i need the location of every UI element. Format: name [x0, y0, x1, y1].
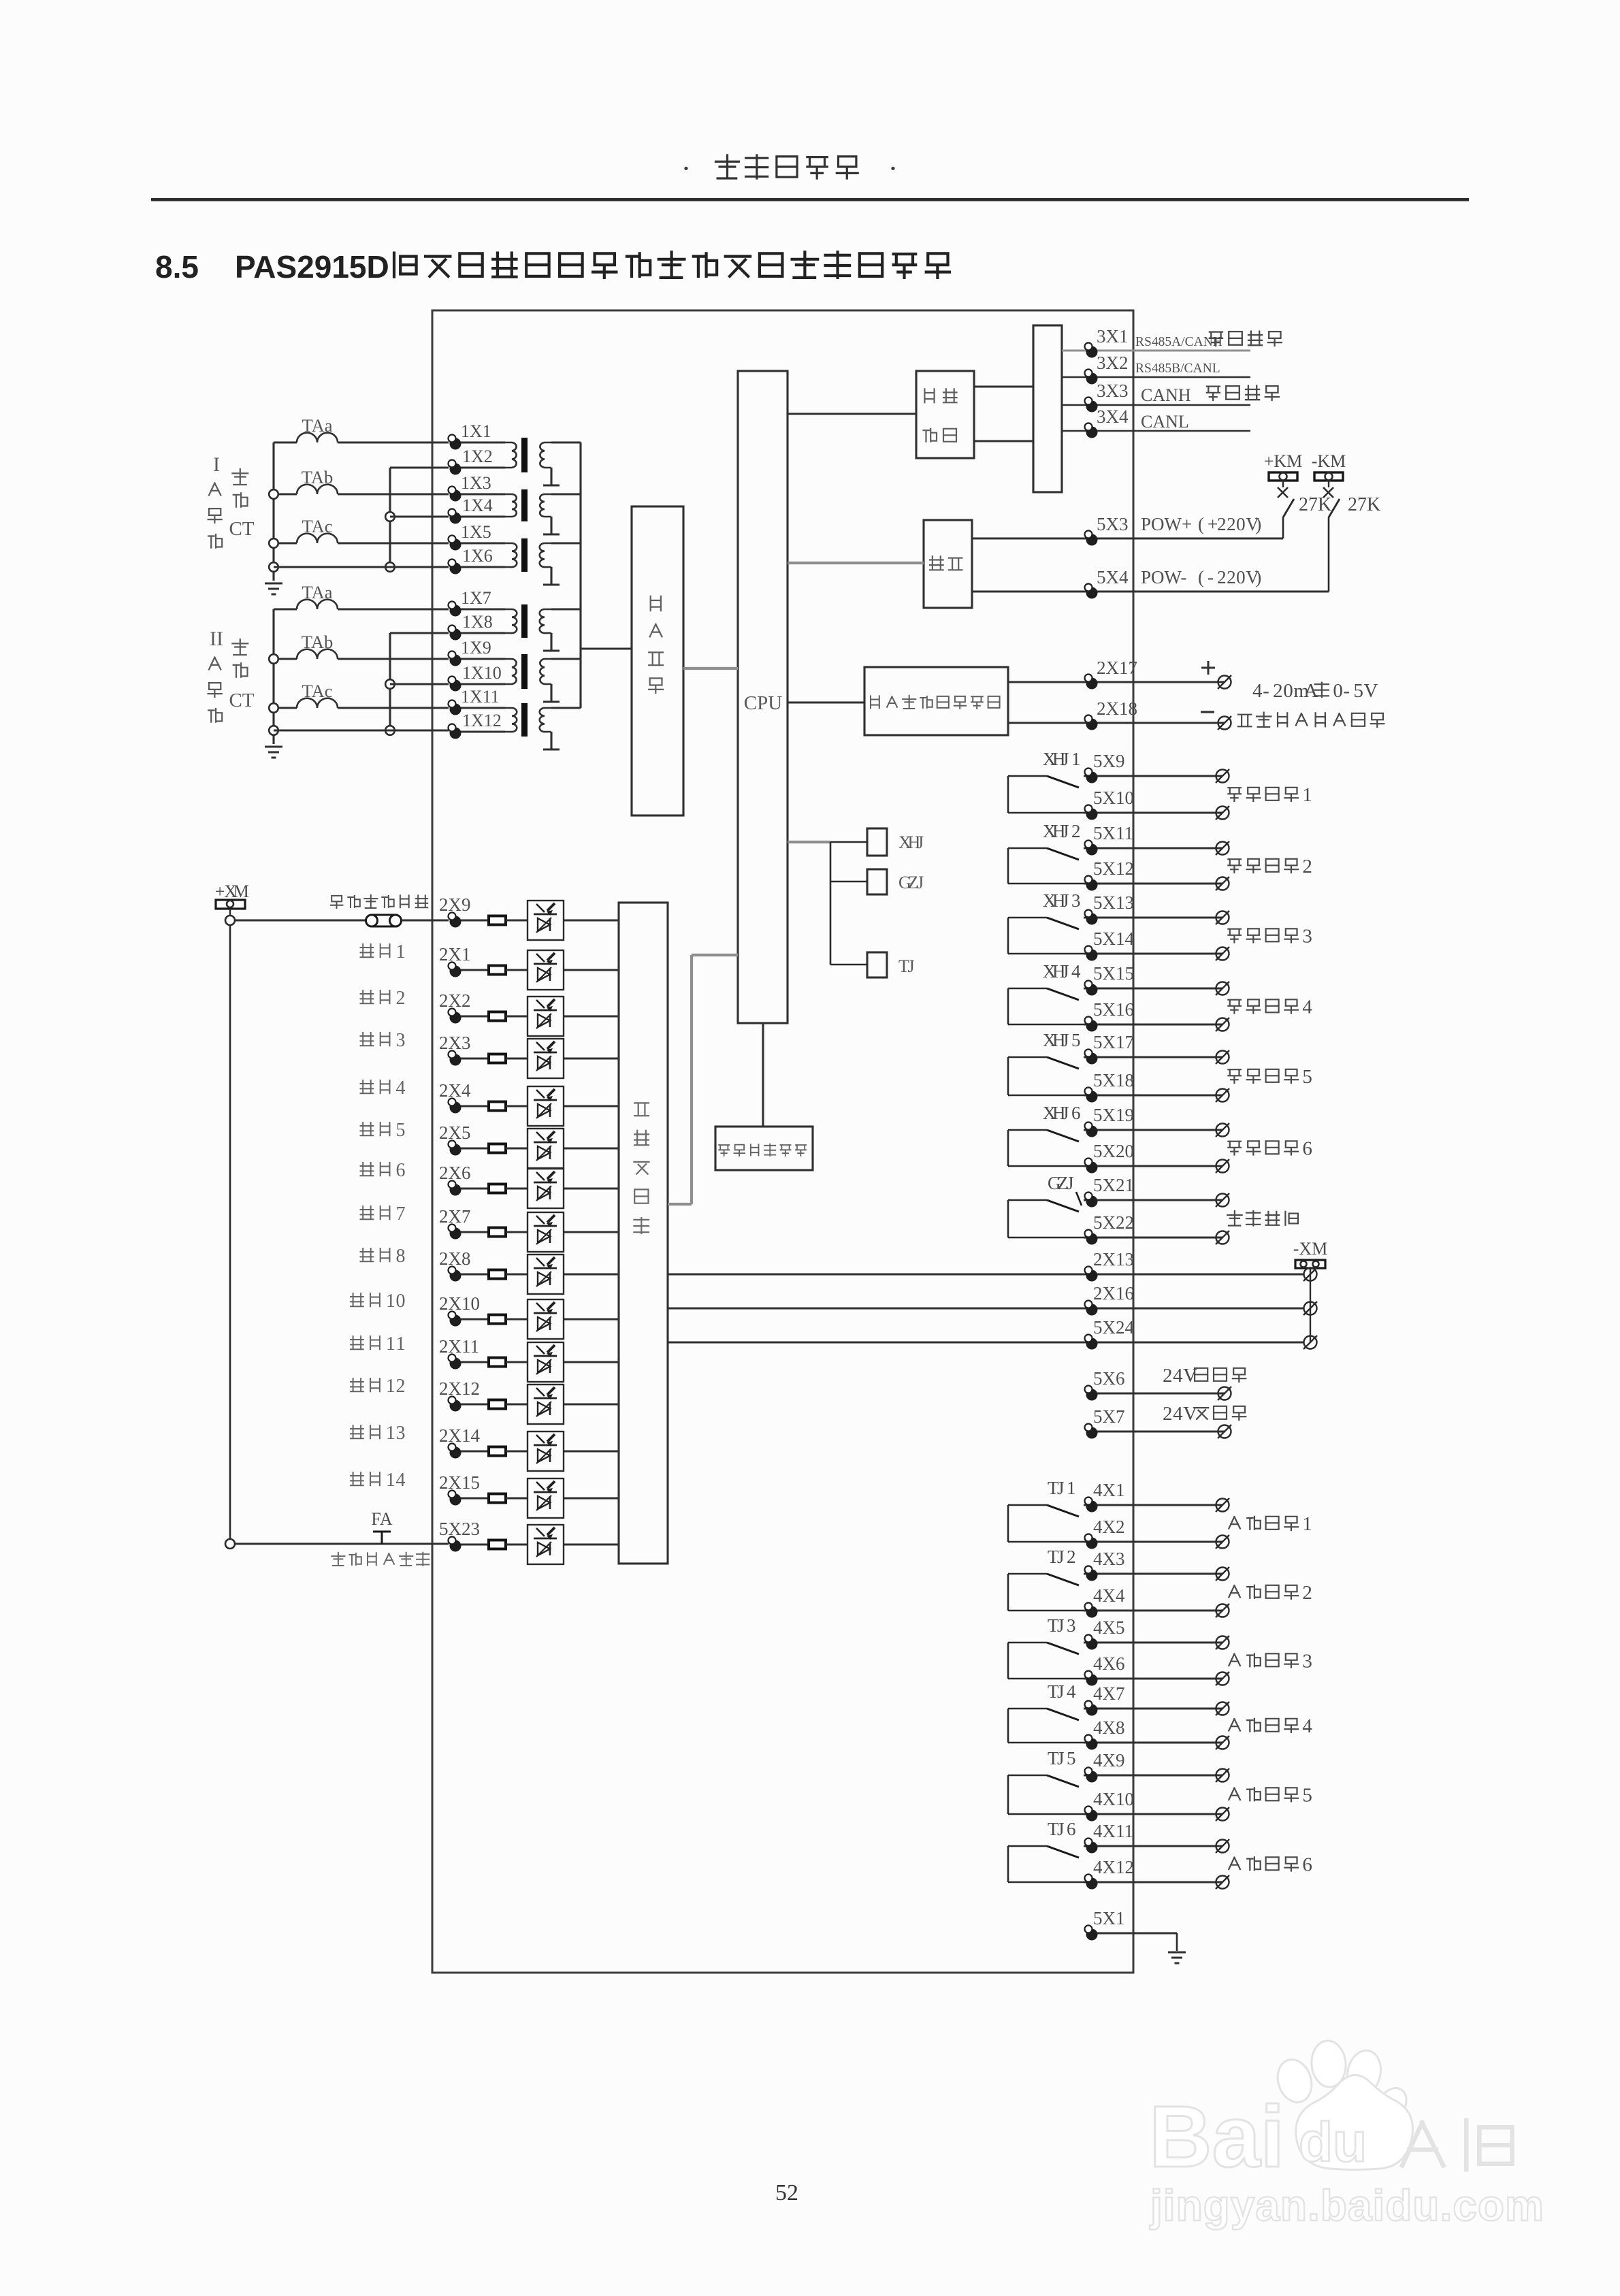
svg-text:2X3: 2X3	[439, 1033, 471, 1053]
svg-text:5X20: 5X20	[1093, 1141, 1134, 1161]
svg-text:1: 1	[1302, 1513, 1312, 1535]
svg-text:2X13: 2X13	[1093, 1249, 1134, 1270]
svg-text:TAc: TAc	[302, 681, 333, 701]
svg-text:J: J	[1067, 1173, 1074, 1193]
svg-text:·: ·	[888, 152, 898, 185]
svg-text:1X12: 1X12	[462, 711, 502, 730]
svg-text:TAa: TAa	[302, 582, 333, 602]
svg-text:1X7: 1X7	[461, 588, 491, 608]
svg-text:J: J	[1062, 1030, 1069, 1050]
svg-text:0: 0	[1333, 680, 1343, 702]
svg-text:1: 1	[1067, 1478, 1076, 1498]
svg-text:2: 2	[395, 1376, 405, 1397]
svg-text:1: 1	[386, 1333, 395, 1355]
svg-text:4: 4	[1067, 1681, 1076, 1702]
svg-text:5: 5	[1071, 1030, 1081, 1050]
svg-text:2: 2	[1302, 1582, 1312, 1604]
svg-text:2X18: 2X18	[1097, 698, 1137, 719]
svg-text:J: J	[1062, 890, 1069, 911]
svg-text:2X2: 2X2	[439, 990, 471, 1011]
svg-text:·: ·	[681, 152, 692, 185]
svg-text:4: 4	[1302, 997, 1312, 1018]
svg-text:2X12: 2X12	[439, 1378, 480, 1399]
svg-text:1X9: 1X9	[461, 638, 491, 658]
svg-text:TAc: TAc	[302, 516, 333, 536]
svg-text:CT: CT	[229, 690, 254, 711]
svg-text:1: 1	[386, 1291, 395, 1312]
svg-text:CANH: CANH	[1141, 385, 1191, 405]
svg-text:1X10: 1X10	[462, 663, 502, 683]
svg-text:RS485B/CANL: RS485B/CANL	[1135, 361, 1220, 376]
svg-text:8.5: 8.5	[155, 249, 199, 285]
svg-text:4: 4	[1252, 680, 1263, 702]
svg-text:5X9: 5X9	[1093, 751, 1125, 771]
svg-text:1: 1	[395, 941, 405, 963]
svg-text:5X21: 5X21	[1093, 1175, 1134, 1195]
svg-text:2: 2	[1071, 821, 1081, 841]
svg-text:0: 0	[395, 1291, 405, 1312]
svg-text:jingyan.baidu.com: jingyan.baidu.com	[1150, 2181, 1544, 2230]
svg-text:2: 2	[1067, 1547, 1076, 1567]
svg-text:5X6: 5X6	[1093, 1368, 1125, 1389]
svg-text:3X1: 3X1	[1097, 326, 1129, 346]
svg-text:0: 0	[1236, 567, 1246, 587]
svg-text:2X11: 2X11	[439, 1336, 479, 1357]
svg-text:TAb: TAb	[302, 467, 333, 487]
svg-text:II: II	[210, 628, 223, 650]
svg-text:3: 3	[1302, 926, 1312, 948]
svg-text:4X12: 4X12	[1093, 1857, 1134, 1877]
svg-text:J: J	[1057, 1615, 1065, 1636]
svg-text:5X16: 5X16	[1093, 999, 1134, 1020]
svg-text:27K: 27K	[1348, 494, 1380, 515]
svg-text:3X3: 3X3	[1097, 381, 1129, 401]
svg-text:J: J	[1062, 1103, 1069, 1123]
svg-text:4: 4	[1173, 1365, 1183, 1387]
svg-text:J: J	[917, 873, 924, 892]
svg-text:-XM: -XM	[1293, 1239, 1328, 1259]
svg-text:0: 0	[1236, 514, 1246, 534]
svg-text:V: V	[1183, 1403, 1197, 1425]
svg-text:5X14: 5X14	[1093, 928, 1134, 949]
svg-text:1: 1	[1071, 749, 1081, 769]
svg-text:RS485A/CANH: RS485A/CANH	[1135, 335, 1222, 349]
svg-text:1: 1	[386, 1470, 395, 1491]
svg-text:5X11: 5X11	[1093, 823, 1133, 843]
svg-text:1X3: 1X3	[461, 473, 491, 493]
svg-text:5: 5	[1353, 680, 1363, 702]
svg-text:1X6: 1X6	[462, 546, 493, 566]
svg-text:PAS2915D: PAS2915D	[235, 249, 389, 285]
svg-text:POW+: POW+	[1141, 514, 1192, 534]
svg-text:4X10: 4X10	[1093, 1789, 1134, 1809]
svg-text:2X8: 2X8	[439, 1248, 471, 1269]
svg-text:1X8: 1X8	[462, 612, 493, 632]
svg-text:5X19: 5X19	[1093, 1105, 1134, 1125]
svg-text:A: A	[1303, 680, 1318, 702]
svg-text:1X11: 1X11	[461, 687, 500, 707]
svg-text:5X15: 5X15	[1093, 963, 1134, 984]
svg-text:8: 8	[395, 1246, 405, 1267]
svg-text:+: +	[1208, 514, 1218, 534]
svg-text:4X8: 4X8	[1093, 1717, 1125, 1738]
svg-text:(: (	[1198, 567, 1204, 587]
svg-text:4: 4	[1302, 1715, 1312, 1737]
svg-text:3: 3	[395, 1030, 405, 1051]
svg-text:6: 6	[1302, 1854, 1312, 1876]
svg-text:5X18: 5X18	[1093, 1070, 1134, 1090]
svg-text:5X17: 5X17	[1093, 1032, 1134, 1052]
svg-text:6: 6	[395, 1160, 405, 1181]
svg-text:2X16: 2X16	[1093, 1283, 1134, 1304]
svg-text:J: J	[1062, 749, 1069, 769]
svg-text:5X23: 5X23	[439, 1519, 480, 1539]
svg-text:J: J	[1062, 821, 1069, 841]
svg-text:Bai: Bai	[1149, 2088, 1284, 2186]
svg-text:2X4: 2X4	[439, 1080, 471, 1101]
svg-text:4X9: 4X9	[1093, 1750, 1125, 1770]
svg-text:4X7: 4X7	[1093, 1683, 1125, 1704]
svg-text:4: 4	[395, 1078, 405, 1099]
svg-text:4X6: 4X6	[1093, 1653, 1125, 1674]
svg-text:2: 2	[1302, 856, 1312, 877]
svg-text:J: J	[1057, 1748, 1065, 1768]
svg-text:-: -	[1208, 567, 1214, 587]
svg-text:1: 1	[1302, 784, 1312, 806]
svg-text:3: 3	[1067, 1615, 1076, 1636]
svg-text:2X14: 2X14	[439, 1425, 480, 1446]
svg-text:5: 5	[1302, 1785, 1312, 1807]
svg-text:5: 5	[395, 1120, 405, 1141]
svg-text:2: 2	[1163, 1403, 1173, 1425]
svg-text:6: 6	[1302, 1138, 1312, 1160]
svg-text:-KM: -KM	[1312, 451, 1346, 471]
svg-text:TAb: TAb	[302, 632, 333, 652]
svg-text:5X3: 5X3	[1097, 514, 1129, 534]
svg-text:2: 2	[1217, 567, 1227, 587]
svg-text:1X5: 1X5	[461, 522, 491, 542]
svg-text:2X5: 2X5	[439, 1122, 471, 1143]
svg-text:6: 6	[1071, 1103, 1081, 1123]
svg-text:FA: FA	[371, 1509, 393, 1529]
svg-text:2X1: 2X1	[439, 944, 471, 965]
svg-text:CPU: CPU	[744, 692, 782, 714]
svg-text:POW-: POW-	[1141, 567, 1187, 587]
svg-text:5X10: 5X10	[1093, 788, 1134, 808]
svg-text:5X12: 5X12	[1093, 858, 1134, 879]
svg-text:): )	[1255, 514, 1261, 534]
svg-text:2X9: 2X9	[439, 894, 471, 915]
svg-text:0: 0	[1283, 680, 1293, 702]
svg-text:3: 3	[1302, 1651, 1312, 1672]
svg-text:2: 2	[1217, 514, 1227, 534]
svg-text:2X15: 2X15	[439, 1472, 480, 1493]
svg-text:J: J	[1057, 1547, 1065, 1567]
svg-text:V: V	[1364, 680, 1378, 702]
svg-text:CT: CT	[229, 518, 254, 540]
svg-text:3X4: 3X4	[1097, 406, 1129, 427]
svg-text:): )	[1255, 567, 1261, 587]
svg-text:J: J	[908, 956, 915, 976]
svg-text:-: -	[1263, 680, 1269, 702]
svg-text:4X1: 4X1	[1093, 1480, 1125, 1500]
svg-text:5X7: 5X7	[1093, 1406, 1125, 1427]
svg-text:4X4: 4X4	[1093, 1585, 1125, 1606]
svg-text:5X13: 5X13	[1093, 892, 1134, 913]
svg-text:2: 2	[395, 988, 405, 1009]
svg-text:5: 5	[1302, 1066, 1312, 1088]
svg-text:5: 5	[1067, 1748, 1076, 1768]
svg-text:4: 4	[395, 1470, 405, 1491]
svg-text:2: 2	[1227, 567, 1236, 587]
svg-text:TAa: TAa	[302, 415, 333, 436]
svg-text:J: J	[1062, 961, 1069, 982]
svg-text:5X22: 5X22	[1093, 1212, 1134, 1233]
svg-text:1X4: 1X4	[462, 496, 493, 515]
svg-text:2: 2	[1273, 680, 1283, 702]
svg-text:+KM: +KM	[1264, 451, 1303, 471]
svg-text:(: (	[1198, 514, 1204, 534]
svg-text:J: J	[1057, 1478, 1065, 1498]
svg-text:2X7: 2X7	[439, 1206, 471, 1227]
svg-text:1X2: 1X2	[462, 447, 493, 466]
svg-text:I: I	[213, 453, 220, 476]
svg-text:2: 2	[1227, 514, 1236, 534]
svg-text:2: 2	[1163, 1365, 1173, 1387]
svg-text:J: J	[1057, 1681, 1065, 1702]
svg-text:3X2: 3X2	[1097, 353, 1129, 373]
svg-text:27K: 27K	[1299, 494, 1331, 515]
svg-text:1: 1	[395, 1333, 405, 1355]
svg-text:4X11: 4X11	[1093, 1821, 1133, 1841]
svg-text:1: 1	[386, 1376, 395, 1397]
svg-text:1X1: 1X1	[461, 421, 491, 441]
svg-text:du: du	[1299, 2112, 1367, 2173]
svg-text:M: M	[233, 882, 249, 901]
svg-text:2X10: 2X10	[439, 1293, 480, 1314]
svg-text:J: J	[1057, 1819, 1065, 1839]
svg-text:5X1: 5X1	[1093, 1908, 1125, 1928]
svg-text:5X4: 5X4	[1097, 567, 1129, 587]
svg-text:4: 4	[1071, 961, 1081, 982]
svg-text:+: +	[215, 882, 225, 901]
svg-text:2X17: 2X17	[1097, 658, 1137, 678]
svg-text:52: 52	[775, 2180, 798, 2205]
svg-text:-: -	[1343, 680, 1350, 702]
svg-text:5X24: 5X24	[1093, 1317, 1134, 1338]
svg-text:3: 3	[395, 1423, 405, 1444]
svg-text:4X5: 4X5	[1093, 1617, 1125, 1638]
svg-text:6: 6	[1067, 1819, 1076, 1839]
svg-text:3: 3	[1071, 890, 1081, 911]
svg-text:1: 1	[386, 1423, 395, 1444]
svg-text:4X2: 4X2	[1093, 1517, 1125, 1537]
svg-text:2X6: 2X6	[439, 1163, 471, 1183]
svg-text:4X3: 4X3	[1093, 1549, 1125, 1569]
svg-text:CANL: CANL	[1141, 412, 1189, 432]
svg-text:4: 4	[1173, 1403, 1183, 1425]
svg-text:7: 7	[395, 1203, 405, 1225]
svg-text:J: J	[917, 832, 924, 852]
